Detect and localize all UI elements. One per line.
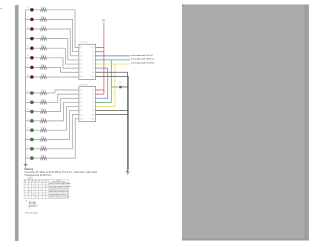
svg-text:storage register clock pin 12: storage register clock pin 12 <box>49 193 68 196</box>
resistor R16 220R <box>40 155 47 160</box>
resistor R7 220R <box>40 64 47 69</box>
wire U1 pin2 to 5V <box>96 51 104 53</box>
wire R4 to U1 pin Q3 <box>47 39 79 60</box>
LED D12 (green) with lead wires <box>26 118 40 122</box>
wire capacitor C1 to ground rail <box>122 86 128 88</box>
svg-text:5: 5 <box>40 181 41 183</box>
wire 5V rail vertical <box>103 23 105 94</box>
LED D5 (red) with lead wires <box>26 46 40 50</box>
gray panel (blocked media box) <box>182 5 309 241</box>
wire U2 VCC to 5V <box>96 89 104 91</box>
svg-text:File last edited: File last edited <box>25 211 37 214</box>
LED D11 (green) with lead wires <box>26 109 40 113</box>
table row edit marks <box>70 186 71 199</box>
left gray sidebar bar <box>15 5 18 241</box>
resistor R12 220R <box>40 118 47 123</box>
resistor R1 220R <box>40 7 47 12</box>
resistor R13 220R <box>40 127 47 132</box>
svg-text:serial data input from pin 11: serial data input from pin 11 <box>49 187 68 190</box>
wire U1 MR dark to ground rail <box>96 72 128 170</box>
LED D8 (red) with lead wires <box>26 74 40 78</box>
resistor R3 220R <box>40 26 47 31</box>
wire U2 pin6 dark to ground rail <box>96 110 128 112</box>
svg-text:}: } <box>29 207 30 209</box>
wire R10 to U2 pin Q1 <box>47 94 79 102</box>
resistor R8 220R <box>40 74 47 79</box>
svg-text:master reclear active low pin: master reclear active low pin <box>49 196 69 199</box>
resistor R15 220R <box>40 146 47 151</box>
wire R12 to U2 pin Q3 <box>47 102 79 121</box>
wire U2 pin2 to 5V <box>96 93 104 95</box>
table cell marks <box>25 183 48 199</box>
wire R8 to U1 pin Q7 <box>47 75 79 78</box>
LED D3 (red) with lead wires <box>26 26 40 30</box>
LED D4 (red) with lead wires <box>26 36 40 40</box>
wire R11 to U2 pin Q2 <box>47 98 79 111</box>
svg-text:?: ? <box>70 197 71 199</box>
LED D14 (green) with lead wires <box>26 137 40 141</box>
capacitor C1 100nF <box>118 82 121 88</box>
resistor R11 220R <box>40 109 47 114</box>
wire U1 DS blue to breadboard label <box>96 55 130 57</box>
revision table <box>24 180 68 199</box>
code block <box>29 201 38 209</box>
resistor R9 220R <box>40 90 47 95</box>
table notes column text <box>49 182 71 199</box>
LED D2 (red) with lead wires <box>26 17 40 21</box>
svg-text:4: 4 <box>36 181 37 183</box>
wire R3 to U1 pin Q2 <box>47 29 79 56</box>
svg-text:?: ? <box>70 191 71 193</box>
wire U1 GND dark to ground rail <box>96 76 129 170</box>
wire R7 to U1 pin Q6 <box>47 67 79 72</box>
LED D16 (green) with lead wires <box>26 156 40 160</box>
svg-text:update(s);: update(s); <box>29 206 38 208</box>
wire U1 latch green to breadboard label and U2 <box>96 59 130 61</box>
wire U1 serial-out violet to U2 serial-in <box>96 68 108 98</box>
op IC U2 74HC595N (shift register) <box>79 84 96 121</box>
table header labels <box>25 179 66 183</box>
wire R1 to U1 pin Q0 <box>47 10 79 48</box>
wire R14 to U2 pin Q5 <box>47 111 79 140</box>
wire U1 VCC to 5V <box>96 47 104 49</box>
svg-text:6: 6 <box>43 181 44 183</box>
LED D13 (green) with lead wires <box>26 128 40 132</box>
wire R16 to U2 pin Q7 <box>47 119 79 158</box>
svg-text:November 30, 2020, at 06:23 PM: November 30, 2020, at 06:23 PM by 10.0.1… <box>25 171 99 174</box>
svg-text:latch output register to the p: latch output register to the pins <box>49 185 70 188</box>
svg-text:to:: to: <box>25 199 27 202</box>
resistor R2 220R <box>40 16 47 21</box>
svg-text:LayOut: LayOut <box>27 176 34 179</box>
wire R13 to U2 pin Q4 <box>47 106 79 130</box>
resistor R6 220R <box>40 55 47 60</box>
wire U2 pin7 dark to ground rail <box>96 114 129 116</box>
resistor R5 220R <box>40 45 47 50</box>
LED D9 (green) with lead wires <box>26 90 40 94</box>
svg-text:History: History <box>25 168 34 171</box>
svg-text:shift register clock input lin: shift register clock input line <box>49 190 68 193</box>
LED D10 (green) with lead wires <box>26 100 40 104</box>
wire R6 to U1 pin Q5 <box>47 58 79 68</box>
ground symbol GND1 <box>24 164 28 168</box>
wire R5 to U1 pin Q4 <box>47 48 79 64</box>
LED D7 (red) with lead wires <box>26 65 40 69</box>
wire R9 to U2 pin Q0 <box>47 90 79 93</box>
svg-text:7: 7 <box>47 181 48 183</box>
LED D1 (red) with lead wires <box>26 7 40 11</box>
resistor R4 220R <box>40 36 47 41</box>
wire U1 clock yellow to breadboard label and U2 <box>96 63 130 65</box>
LED D15 (green) with lead wires <box>26 146 40 150</box>
resistor R10 220R <box>40 99 47 104</box>
page edge tick <box>0 7 2 10</box>
op IC U1 74HC595N (shift register) <box>79 42 96 79</box>
ground bus wire (LED cathode rail) <box>25 10 27 164</box>
resistor R14 220R <box>40 137 47 142</box>
LED D6 (red) with lead wires <box>26 55 40 59</box>
wire green branch to capacitor C1 <box>111 86 118 88</box>
wire R2 to U1 pin Q1 <box>47 19 79 51</box>
ground symbol GND2 <box>126 170 130 174</box>
wire R15 to U2 pin Q6 <box>47 115 79 149</box>
